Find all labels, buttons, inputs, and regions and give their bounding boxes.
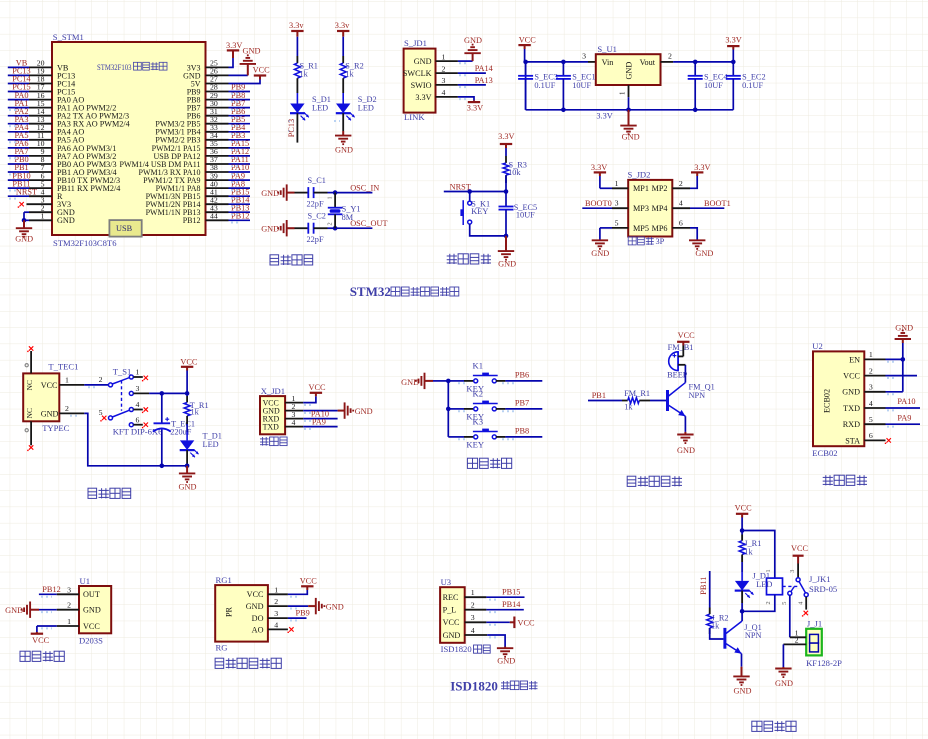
wire emitter to gnd (684, 416, 686, 432)
junction bottom EC4 (693, 108, 698, 113)
svg-text:2: 2 (67, 601, 71, 610)
mcu pin 4 wire net NRST (29, 195, 52, 197)
wire VCC input rail (524, 49, 526, 62)
wire S_D1 cathode net PC13 (296, 113, 298, 142)
mcu pin 27 wire to VCC (206, 83, 229, 85)
svg-text:1k: 1k (744, 547, 753, 556)
svg-text:4: 4 (442, 88, 446, 97)
ground symbol right of RG1 (308, 605, 316, 607)
svg-text:S_STM1: S_STM1 (53, 32, 84, 42)
svg-text:3: 3 (789, 570, 796, 573)
svg-text:U1: U1 (80, 576, 91, 586)
svg-text:3.3V: 3.3V (591, 163, 607, 172)
ground symbol right of X_JD1 (338, 410, 345, 412)
svg-text:PB12: PB12 (183, 216, 201, 225)
svg-text:1: 1 (67, 617, 71, 626)
U2 pin stubs (864, 358, 885, 360)
svg-text:4: 4 (136, 400, 140, 409)
wire 3.3v to S_R1 (296, 37, 298, 56)
svg-text:GND: GND (622, 132, 640, 141)
svg-text:PR: PR (225, 606, 234, 617)
svg-text:MP3: MP3 (633, 204, 649, 213)
led T_D1 (186, 432, 188, 440)
svg-text:3P: 3P (656, 237, 665, 246)
svg-text:DO: DO (252, 614, 264, 623)
svg-text:KFT DIP-6X6: KFT DIP-6X6 (113, 426, 163, 436)
svg-text:5: 5 (781, 602, 788, 605)
svg-text:PA10: PA10 (897, 397, 915, 406)
svg-text:3: 3 (136, 384, 140, 393)
svg-text:PB12: PB12 (231, 212, 249, 221)
switch T_S1 pin3 wire to VCC node (133, 392, 149, 394)
svg-text:GND: GND (243, 47, 261, 56)
svg-text:10UF: 10UF (572, 81, 591, 90)
compile mask dots S_JD1 (459, 62, 468, 64)
connector S_JD2 label 3P (628, 237, 636, 245)
svg-text:GND: GND (355, 407, 373, 416)
mcu pin 34 wire net PB3 (206, 139, 229, 141)
svg-text:3.3v: 3.3v (335, 21, 350, 30)
svg-text:USB: USB (116, 224, 133, 233)
key K3 wire net PB8 (496, 436, 505, 438)
wire S_C2 to crystal node (328, 227, 336, 229)
svg-text:3: 3 (442, 76, 446, 85)
svg-text:3.3V: 3.3V (694, 163, 710, 172)
X_JD1 pin4 wire net PA9 (285, 426, 303, 428)
wire 3.3v to S_R2 (342, 37, 344, 56)
svg-text:VCC: VCC (41, 381, 58, 390)
module U2 body (813, 351, 864, 446)
mcu pin 18 wire net PC14 (29, 83, 52, 85)
svg-text:BOOT0: BOOT0 (585, 199, 612, 208)
U2 pin6 no-connect (887, 438, 891, 442)
switch T_S1 pin4 stub no-connect (133, 409, 142, 411)
svg-text:3: 3 (582, 51, 586, 60)
mcu pin 9 wire net PA7 (29, 155, 52, 157)
svg-text:3: 3 (67, 585, 71, 594)
wire collector (741, 611, 743, 621)
svg-text:K2: K2 (473, 389, 484, 399)
wire emitter to gnd (741, 654, 743, 667)
mcu pin 11 wire net PA5 (29, 139, 52, 141)
svg-text:1: 1 (65, 375, 69, 384)
junction NRST at key (467, 189, 472, 194)
mcu pin 8 wire net PB0 (29, 163, 52, 165)
svg-text:0.1UF: 0.1UF (534, 81, 555, 90)
wire branch to relay coil (742, 531, 775, 579)
junction top EC4 (693, 60, 698, 65)
resistor S_R3 10k (505, 156, 507, 163)
svg-text:EN: EN (849, 355, 860, 364)
svg-text:GND: GND (414, 57, 432, 66)
svg-text:GND: GND (695, 249, 713, 258)
compile mask U3 (489, 599, 499, 601)
svg-text:VCC: VCC (300, 577, 318, 586)
wire gnd rail U2 (902, 343, 904, 392)
key K1 wire net PB6 (496, 380, 505, 382)
ground symbol regulator (628, 110, 630, 126)
svg-text:2: 2 (471, 601, 475, 610)
svg-text:ISD1820: ISD1820 (450, 679, 498, 694)
mcu pin 39 wire net PA9 (206, 179, 229, 181)
wire J_R2 to base (710, 628, 724, 639)
power 3.3V output (732, 46, 734, 49)
wire J_D1 to collector node (741, 591, 743, 603)
T_TEC1 pin 1 wire to switch (59, 384, 84, 386)
svg-text:LINK: LINK (404, 112, 425, 122)
compile mask U1 (41, 596, 52, 598)
svg-text:3: 3 (471, 613, 475, 622)
svg-text:2: 2 (442, 64, 446, 73)
transistor J_Q1 NPN (723, 628, 726, 649)
svg-text:5: 5 (869, 415, 873, 424)
relay lever (799, 581, 806, 593)
mcu pin 29 wire net PB8 (206, 99, 229, 101)
svg-text:MP6: MP6 (652, 224, 668, 233)
wire collector to buzzer (684, 365, 686, 383)
J_J1 pin1 wire (790, 636, 806, 638)
mcu pin 7 wire net PB1 (29, 171, 52, 173)
mcu pin 2 wire to gnd (29, 211, 52, 213)
svg-text:BEEP: BEEP (667, 371, 688, 380)
junction key2 rail (446, 407, 451, 412)
svg-text:3.3V: 3.3V (415, 93, 431, 102)
svg-text:GND: GND (41, 409, 59, 418)
compile mask X_JD1 (304, 404, 313, 406)
wire J_R1 to J_D1 (741, 562, 743, 572)
svg-text:2: 2 (668, 51, 672, 60)
switch T_S1 lever top (112, 378, 129, 384)
svg-text:S_C1: S_C1 (308, 176, 326, 185)
svg-text:U3: U3 (441, 577, 452, 587)
svg-text:STM32: STM32 (350, 284, 391, 299)
led S_D1 (296, 93, 298, 104)
svg-text:GND: GND (775, 679, 793, 688)
switch T_S1 pin1 stub no-connect (133, 376, 142, 378)
capacitor S_EC1 10UF (562, 62, 564, 76)
power 3.3V at mcu pin 25 (232, 50, 234, 58)
junction top EC3 (523, 60, 528, 65)
U2 pin4 wire net PA10 (886, 407, 921, 409)
mcu pin 40 wire net PA8 (206, 187, 229, 189)
power VCC above RG1 (306, 586, 308, 590)
capacitor S_EC3 0.1UF (525, 62, 527, 76)
ground symbol below U3 (504, 647, 506, 649)
svg-text:PB11: PB11 (699, 577, 708, 595)
svg-text:VCC: VCC (247, 590, 264, 599)
S_JD1 pin 1 wire to gnd (436, 60, 458, 62)
ground symbol buzzer (684, 432, 686, 435)
capacitor S_EC5 10UF (505, 192, 507, 207)
svg-text:P_L: P_L (443, 606, 457, 615)
svg-text:REC: REC (443, 593, 459, 602)
wire S_K1 to gnd node (470, 224, 506, 236)
wire 3.3V output rail (673, 61, 733, 63)
regulator S_U1 body (596, 54, 661, 85)
junction U2 EN (901, 357, 906, 362)
svg-text:RG: RG (216, 643, 228, 653)
connector T_TEC1 body (23, 373, 59, 421)
svg-text:TXD: TXD (263, 422, 280, 431)
svg-text:3.3V: 3.3V (725, 35, 741, 44)
led S_D2 (342, 93, 344, 104)
svg-text:NRST: NRST (16, 187, 37, 196)
svg-text:6: 6 (869, 431, 873, 440)
connector S_JD2 body (628, 180, 672, 237)
svg-text:1: 1 (615, 179, 619, 188)
wire T_D1 to gnd rail (186, 450, 188, 466)
wire VCC to branch node (741, 518, 743, 531)
connector X_JD1 download label (262, 437, 264, 446)
U3 pin1 wire net PB15 (465, 596, 487, 598)
S_JD1 pin 3 wire net PA13 (436, 84, 458, 86)
svg-text:J_JK1: J_JK1 (809, 574, 831, 584)
svg-text:LED: LED (756, 580, 772, 589)
wire S_R3 to NRST node (505, 175, 507, 191)
svg-text:PB1: PB1 (592, 391, 606, 400)
svg-text:VCC: VCC (843, 372, 860, 381)
junction NRST at S_R3 (504, 189, 509, 194)
svg-text:MP1: MP1 (633, 184, 649, 193)
title bluetooth module (825, 475, 827, 485)
svg-text:RG1: RG1 (216, 575, 232, 585)
svg-text:3: 3 (274, 609, 278, 618)
svg-text:S_C2: S_C2 (308, 211, 326, 220)
ground symbol at S_JD1 pin1 (472, 53, 474, 61)
power VCC right of U3 (510, 621, 515, 623)
relay NO contact (788, 591, 792, 595)
svg-text:6: 6 (679, 218, 683, 227)
mcu pin 5 wire net PB11 (29, 187, 52, 189)
wire relay NO to J_J1 pin1 (789, 595, 791, 637)
power 3.3V at S_JD2 pin2 (696, 172, 698, 176)
led J_D1 (735, 581, 749, 591)
wire net OSC_IN (335, 192, 372, 194)
svg-text:K3: K3 (473, 417, 484, 427)
svg-text:K1: K1 (473, 361, 484, 371)
svg-text:T_S1: T_S1 (113, 366, 132, 376)
svg-text:GND: GND (895, 323, 913, 332)
ground symbol S_JD2 pin5 (592, 239, 608, 241)
title key circuit (467, 458, 477, 468)
mcu pin 3 stub no-connect (27, 203, 53, 205)
svg-text:3.3V: 3.3V (498, 132, 514, 141)
svg-text:GND: GND (464, 36, 482, 45)
relay common pin (797, 564, 799, 578)
title lighting circuit (752, 721, 762, 731)
connector X_JD1 body (260, 396, 285, 434)
svg-text:GND: GND (326, 602, 344, 611)
wire net PB1 (588, 400, 622, 402)
resistor FM_R1 1k (622, 400, 628, 402)
mcu pin 25 wire to 3.3V (206, 66, 229, 68)
junction top EC2 (731, 60, 736, 65)
wire gnd to keys rail (433, 380, 448, 382)
svg-text:PA14: PA14 (475, 64, 494, 73)
wire bottom 3.3V net rail (525, 62, 527, 110)
T_TEC1 top mechanical pin (30, 351, 32, 373)
svg-text:2: 2 (274, 597, 278, 606)
svg-text:GND: GND (335, 146, 353, 155)
svg-text:PC13: PC13 (287, 119, 296, 137)
svg-text:2: 2 (795, 636, 799, 645)
svg-text:1: 1 (442, 52, 446, 61)
svg-text:VCC: VCC (519, 36, 537, 45)
U2 pin2 wire (886, 375, 918, 377)
svg-text:VCC: VCC (32, 636, 50, 645)
mcu pin 14 wire net PA2 (29, 115, 52, 117)
S_JD2 pin4 wire net BOOT1 (672, 207, 690, 209)
svg-text:PB9: PB9 (296, 609, 310, 618)
svg-text:VCC: VCC (443, 618, 460, 627)
wire net OSC_OUT (335, 227, 372, 229)
junction crystal OSC_OUT (333, 226, 338, 231)
svg-text:4: 4 (679, 199, 683, 208)
svg-text:5: 5 (99, 408, 103, 417)
title reset circuit (449, 254, 451, 264)
ground symbol below S_D2 (342, 131, 344, 136)
svg-text:VCC: VCC (83, 622, 100, 631)
svg-text:S_JD2: S_JD2 (628, 170, 651, 180)
svg-text:PB6: PB6 (515, 371, 529, 380)
junction VCC line (185, 391, 190, 396)
U3 pin3 wire to VCC (465, 621, 487, 623)
junction at mcu gnd pins (22, 218, 27, 223)
svg-text:3: 3 (869, 383, 873, 392)
X_JD1 pin1 wire to VCC (285, 402, 303, 404)
svg-text:U2: U2 (812, 341, 823, 351)
svg-text:PB8: PB8 (515, 427, 529, 436)
svg-text:1k: 1k (624, 402, 633, 411)
ground symbol mcu pins 1-2 (23, 220, 25, 228)
svg-text:GND: GND (443, 631, 461, 640)
wire net NRST (444, 191, 506, 193)
compile mask dots near mcu left labels (9, 109, 17, 111)
svg-text:OUT: OUT (83, 590, 100, 599)
svg-text:OSC_IN: OSC_IN (350, 183, 379, 192)
resistor S_R2 1k (342, 56, 344, 63)
svg-text:1: 1 (136, 367, 140, 376)
RG1 pin4 stub no-connect (268, 628, 288, 630)
capacitor S_C2 22pF (295, 227, 309, 229)
svg-text:TYPEC: TYPEC (42, 423, 69, 433)
svg-text:NPN: NPN (689, 391, 706, 400)
wire regulator gnd (628, 97, 630, 110)
svg-text:PA9: PA9 (312, 418, 326, 427)
switch T_S1 lever bottom (112, 410, 129, 417)
svg-text:2: 2 (65, 404, 69, 413)
svg-text:GND: GND (677, 446, 695, 455)
ground symbol left of U1 (30, 609, 39, 611)
regulator S_U1 pin 1 lead (628, 85, 630, 97)
S_JD2 pin3 wire net BOOT0 (612, 207, 628, 209)
svg-text:FM_B1: FM_B1 (668, 343, 694, 352)
wire S_D2 cathode to gnd (342, 113, 344, 131)
svg-text:VCC: VCC (791, 544, 809, 553)
compile mask U2 (887, 361, 896, 363)
ground symbol power circuit (186, 466, 188, 474)
svg-text:ISD1820: ISD1820 (441, 644, 472, 654)
wire VCC to T_R1 (186, 371, 188, 397)
X_JD1 pin3 wire net PA10 (285, 418, 303, 420)
svg-text:GND: GND (401, 378, 419, 387)
mcu pin 6 wire net PB10 (29, 179, 52, 181)
svg-text:8M: 8M (342, 213, 354, 222)
junction cap tap (160, 391, 165, 396)
svg-text:S_JD1: S_JD1 (404, 38, 427, 48)
svg-text:3.3V: 3.3V (226, 41, 242, 50)
ground symbol J_J1 (782, 667, 784, 669)
junction key1 rail (446, 379, 451, 384)
ground symbol J_Q1 (741, 667, 743, 677)
svg-text:STM32F103C8T6: STM32F103C8T6 (53, 238, 117, 248)
svg-text:GND: GND (734, 687, 752, 696)
svg-text:220uF: 220uF (170, 427, 192, 436)
svg-text:BOOT1: BOOT1 (704, 199, 731, 208)
power 3.3V below S_JD1 pin4 (473, 100, 475, 102)
power VCC at mcu pin 27 (259, 76, 261, 80)
mcu pin 20 wire net VB (29, 66, 52, 68)
U2 pin3 wire (886, 391, 903, 393)
key K2 wire net PB7 (496, 408, 505, 410)
compile mask RG1 (290, 596, 300, 598)
svg-text:FM_R1: FM_R1 (624, 389, 650, 398)
svg-text:GND: GND (842, 388, 860, 397)
svg-text:SWIO: SWIO (411, 81, 432, 90)
mcu USB box (109, 220, 141, 237)
capacitor S_EC4 10UF (694, 62, 696, 76)
junction cap bottom (160, 464, 165, 469)
svg-text:10k: 10k (508, 168, 521, 177)
svg-text:2: 2 (765, 601, 772, 604)
svg-text:22pF: 22pF (307, 235, 324, 244)
svg-text:PB11 RX PWM2/4: PB11 RX PWM2/4 (57, 184, 120, 193)
module U3 body (440, 587, 465, 643)
mcu pin 43 wire net PB13 (206, 211, 229, 213)
title human infrared (20, 651, 30, 661)
svg-text:MP4: MP4 (652, 204, 668, 213)
regulator S_U1 pin 3 lead (588, 61, 596, 63)
keys vertical rail (447, 381, 449, 437)
junction bottom EC1 (561, 108, 566, 113)
svg-text:NC: NC (25, 408, 34, 419)
svg-text:ECB02: ECB02 (812, 448, 837, 458)
svg-text:4: 4 (869, 399, 873, 408)
U1 pin3 wire net PB12 (57, 593, 79, 595)
svg-text:NPN: NPN (745, 631, 762, 640)
svg-text:3.3v: 3.3v (289, 21, 304, 30)
wire 3.3V to S_R3 (505, 148, 507, 156)
svg-text:D203S: D203S (79, 636, 103, 646)
resistor T_R1 1k (186, 396, 188, 402)
title crystal circuit (270, 255, 279, 265)
svg-text:GND: GND (261, 225, 279, 234)
svg-text:1: 1 (274, 585, 278, 594)
mcu pin 44 wire net PB12 (206, 219, 229, 221)
junction top EC1 (561, 60, 566, 65)
svg-text:NRST: NRST (450, 183, 471, 192)
resistor J_R1 1k (741, 531, 743, 535)
svg-text:1k: 1k (300, 69, 309, 78)
compile mask dots near mcu right labels (231, 93, 239, 95)
svg-text:LED: LED (203, 440, 219, 449)
svg-text:VCC: VCC (180, 357, 198, 366)
svg-text:1: 1 (327, 196, 334, 199)
svg-text:VCC: VCC (309, 383, 327, 392)
junction crystal OSC_IN (333, 190, 338, 195)
svg-text:STA: STA (845, 436, 860, 445)
svg-text:VCC: VCC (735, 504, 753, 513)
